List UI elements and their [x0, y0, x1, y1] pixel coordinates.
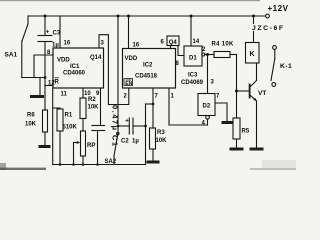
wire D2 output pin4 [207, 119, 209, 125]
svg-text:16: 16 [133, 43, 140, 49]
wire C2 right branch vertical [145, 104, 147, 165]
resistor R2 [80, 98, 86, 119]
svg-text:SA2: SA2 [105, 159, 117, 165]
wire IC2 pin1 to D2 output [169, 88, 208, 125]
svg-text:VDD: VDD [57, 58, 70, 64]
svg-text:510K: 510K [63, 125, 78, 131]
resistor R4 [214, 52, 230, 58]
svg-text:11: 11 [61, 92, 68, 98]
junction rail-C3 [44, 15, 47, 18]
svg-text:1µ: 1µ [132, 139, 139, 145]
wire IC1 pin10 [82, 88, 84, 98]
svg-text:CD4060: CD4060 [63, 71, 86, 77]
junction SA1-left column [44, 76, 47, 79]
wire SA1 bottom horizontal [22, 77, 45, 79]
wire D1 pin14 from rail [190, 16, 192, 46]
wire IC2 pin16 from rail [128, 16, 130, 49]
svg-text:R5: R5 [242, 129, 250, 135]
resistor R1 [57, 109, 63, 131]
svg-text:K: K [250, 51, 255, 58]
svg-text:C2: C2 [121, 139, 129, 145]
svg-text:SA1: SA1 [5, 52, 18, 59]
junction rail-relay K [252, 15, 255, 18]
wire IC1 pin11 drop [52, 88, 54, 165]
inverter D1 IC3 [184, 46, 202, 66]
IC U2 CD4518 (IC2) box [123, 49, 176, 89]
resistor R5 [236, 91, 238, 118]
wire IC2 pin7 [152, 88, 154, 128]
wire rail drop to C2/SA2 [117, 16, 119, 126]
svg-text:1µ: 1µ [52, 43, 59, 49]
ground R5 [230, 148, 244, 151]
node Q4 label box [167, 36, 179, 46]
transistor VT base bar [249, 84, 251, 99]
svg-text:R: R [55, 80, 60, 86]
relay contact K-1 [273, 46, 277, 50]
svg-text:JZC-6F: JZC-6F [252, 25, 285, 32]
relay K coil [253, 16, 255, 24]
ground VT emitter [250, 148, 264, 151]
svg-text:10K: 10K [88, 105, 100, 111]
ground D2 pin7 [222, 121, 233, 124]
junction C1-bottom rail [96, 163, 99, 166]
svg-text:RP: RP [87, 143, 95, 149]
wire C3 bottom / left column [44, 42, 46, 111]
junction D1 output node [206, 53, 209, 56]
capacitor C3 [44, 16, 46, 36]
potentiometer RP [81, 131, 86, 156]
svg-text:Q14: Q14 [90, 55, 102, 61]
svg-text:10K: 10K [156, 138, 168, 144]
junction R1-bottom rail [59, 163, 62, 166]
svg-text:R3: R3 [157, 130, 165, 136]
svg-text:R2: R2 [88, 97, 96, 103]
ground bars [30, 84, 264, 164]
wire D1 output to D2 input [207, 55, 209, 94]
svg-text:10K: 10K [25, 122, 37, 128]
wire IC1 pin16 from rail [59, 16, 61, 48]
inverter D2 IC3 [198, 94, 215, 116]
wire IC1 pin3 Q14 to IC2 pin2 bypass [99, 35, 129, 105]
svg-text:+: + [46, 30, 50, 36]
wire D2 pin7 to ground [215, 103, 227, 121]
switch SA1 [22, 24, 28, 41]
capacitor C1 [92, 125, 105, 127]
junction RP-bottom rail [82, 163, 85, 166]
wire R4 to base [236, 55, 238, 92]
svg-text:R1: R1 [65, 113, 73, 119]
ground R3 [147, 161, 160, 164]
svg-text:CD4518: CD4518 [135, 74, 158, 80]
wire C2 node to pin7 [146, 103, 154, 105]
wire R1 top link [53, 108, 60, 109]
svg-text:0.47µ C1: 0.47µ C1 [111, 105, 120, 148]
IC U1 CD4060 (IC1) box [53, 48, 104, 88]
ground SA1 [39, 78, 41, 96]
junction rail-IC2 pin16 [127, 15, 130, 18]
svg-text:D2: D2 [203, 104, 211, 110]
wire bottom ground rail [53, 164, 146, 166]
svg-text:14: 14 [193, 39, 200, 45]
junction rail-D1 pin14 [190, 15, 193, 18]
junction C2 right branch [144, 125, 147, 128]
wire D1 output [205, 54, 214, 56]
wire SA1 riser from rail [27, 16, 29, 24]
svg-text:IC2: IC2 [143, 63, 153, 69]
transistor VT [251, 81, 257, 87]
svg-text:VDD: VDD [125, 56, 138, 62]
svg-text:+: + [125, 118, 129, 124]
svg-text:16: 16 [64, 41, 71, 47]
scan artifacts [0, 0, 296, 170]
svg-text:D1: D1 [189, 56, 197, 62]
wire IC2 pin6 stub [170, 46, 172, 49]
switch SA2 [117, 126, 119, 132]
wire Q4 to D1 input [178, 46, 184, 56]
svg-text:EN: EN [125, 81, 132, 87]
svg-text:CD4069: CD4069 [181, 80, 204, 86]
svg-text:C3: C3 [53, 31, 61, 37]
junction RP wiper-bottom rail [72, 163, 75, 166]
svg-text:R4 10K: R4 10K [212, 42, 235, 48]
resistor R3 [150, 128, 156, 149]
svg-text:IC3: IC3 [188, 73, 198, 79]
ground SA1 [30, 95, 44, 98]
capacitor C2 [118, 125, 129, 127]
resistor R6 [43, 110, 48, 132]
svg-text:R6: R6 [27, 113, 35, 119]
ground R6 [39, 145, 51, 148]
junction rail-SA2 branch [117, 15, 120, 18]
junction C2 left-SA2 [117, 125, 120, 128]
wire SA1 upper link [34, 55, 53, 78]
svg-text:VT: VT [258, 90, 266, 97]
svg-text:Q4: Q4 [169, 40, 178, 46]
svg-text:IC1: IC1 [70, 64, 80, 70]
junction VT base node [235, 90, 238, 93]
wire IC1 pin12 stub [45, 85, 53, 87]
wire IC1 pin9 to C1 [100, 88, 102, 126]
svg-text:K-1: K-1 [280, 63, 292, 70]
svg-text:+12V: +12V [268, 4, 289, 13]
EN overline box [55, 78, 133, 86]
node +12V terminal [266, 14, 270, 18]
wire top +12V rail [28, 15, 266, 17]
junction IC2 pin7 node [152, 103, 155, 106]
